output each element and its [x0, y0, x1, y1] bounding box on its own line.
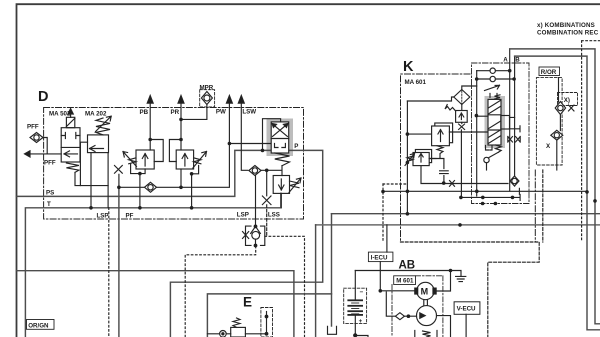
svg-text:LSP: LSP	[237, 211, 249, 218]
svg-text:OR/GN: OR/GN	[28, 322, 49, 329]
svg-text:MA 601: MA 601	[405, 79, 427, 86]
svg-text:PW: PW	[216, 109, 226, 116]
svg-text:x) KOMBINATIONS: x) KOMBINATIONS	[537, 22, 595, 29]
svg-text:PFF: PFF	[44, 160, 56, 167]
svg-text:E: E	[243, 295, 252, 310]
svg-text:T: T	[47, 201, 51, 208]
svg-text:M: M	[421, 287, 429, 297]
svg-text:K: K	[403, 59, 414, 75]
svg-text:PF: PF	[126, 213, 134, 220]
svg-text:PS: PS	[46, 189, 54, 196]
svg-text:COMBINATION REC: COMBINATION REC	[537, 29, 599, 36]
svg-text:MA 202: MA 202	[85, 111, 107, 118]
svg-text:M 601: M 601	[396, 278, 414, 285]
svg-text:LSS: LSS	[268, 211, 280, 218]
svg-text:PFF: PFF	[27, 124, 39, 131]
svg-text:A: A	[503, 57, 508, 64]
svg-text:LSW: LSW	[242, 109, 256, 116]
svg-text:P: P	[294, 143, 298, 150]
svg-text:PB: PB	[140, 109, 149, 116]
svg-text:R/OR: R/OR	[541, 69, 557, 76]
svg-text:B: B	[515, 57, 520, 64]
svg-text:V-ECU: V-ECU	[457, 306, 476, 313]
svg-text:−: −	[360, 289, 364, 296]
svg-text:X): X)	[564, 97, 570, 104]
svg-text:LSP: LSP	[97, 213, 109, 220]
svg-text:PR: PR	[171, 109, 180, 116]
svg-text:D: D	[38, 89, 48, 105]
svg-text:AB: AB	[399, 260, 416, 272]
svg-text:I-ECU: I-ECU	[371, 254, 388, 261]
svg-text:+: +	[359, 318, 363, 325]
svg-text:MA 502: MA 502	[49, 111, 71, 118]
svg-text:MPR: MPR	[200, 85, 214, 92]
